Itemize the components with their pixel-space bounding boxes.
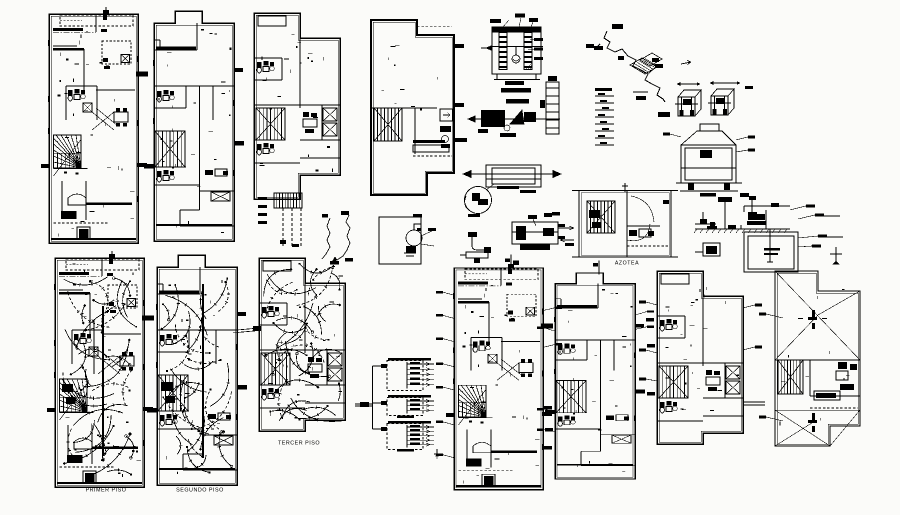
corridor wall — [96, 89, 135, 91]
panel dashed enclosure — [387, 361, 423, 391]
wall — [53, 45, 77, 47]
closet bar — [557, 305, 597, 308]
wall — [490, 430, 492, 468]
roof flag — [109, 254, 115, 258]
wall — [91, 425, 93, 464]
edge tick left — [41, 164, 49, 168]
service row — [816, 393, 836, 398]
wall — [157, 329, 237, 331]
hatched box — [488, 354, 497, 363]
kitchen fixtures — [205, 170, 213, 175]
leader with label bar — [537, 429, 555, 432]
detail: cisterna section — [492, 27, 541, 74]
bathroom fixtures — [160, 334, 177, 346]
leader with label bar — [639, 378, 657, 381]
wall — [703, 397, 743, 399]
drop leader bars — [258, 197, 267, 200]
center spine wall — [202, 330, 204, 454]
hatched box — [726, 366, 740, 379]
inter-plan leader bars — [543, 318, 655, 450]
kitchen fixtures — [208, 414, 216, 419]
dash-dot service line — [59, 276, 102, 278]
leader with label bar — [798, 235, 827, 238]
cistern left arrow — [486, 46, 492, 51]
laundry dashed room — [102, 41, 131, 64]
wall — [95, 16, 97, 32]
dashed utility line — [459, 469, 515, 471]
annotation speckle — [560, 289, 632, 471]
wall — [371, 107, 374, 109]
wall — [555, 307, 598, 309]
winder stairs — [60, 379, 88, 412]
wall — [89, 293, 91, 334]
wall — [254, 139, 285, 141]
wall — [101, 260, 103, 276]
panel bottom bars — [397, 416, 414, 419]
edge tick right — [541, 324, 553, 329]
bottom wall — [51, 238, 136, 240]
hatched box — [89, 347, 98, 356]
wall — [202, 434, 237, 436]
dashed line — [810, 407, 858, 409]
leader with label bar — [436, 454, 454, 458]
bottom wall bar — [557, 464, 633, 466]
mid corridor wall — [657, 362, 743, 364]
vent marks — [508, 269, 512, 274]
closet wall bar — [458, 282, 488, 285]
edge tick right — [136, 72, 148, 77]
dining set — [114, 108, 128, 127]
svg-text:TERCER PISO: TERCER PISO — [278, 441, 320, 447]
closet lines — [466, 430, 468, 460]
detail: isometric registro box — [708, 89, 734, 115]
closet bar — [159, 291, 199, 294]
mid corridor wall — [259, 349, 345, 351]
branch circuits — [407, 400, 434, 402]
roof bath walls — [775, 359, 860, 361]
stair diagonal — [459, 389, 487, 424]
leader with label bar — [635, 310, 654, 315]
wall — [488, 302, 490, 342]
winder stairs — [54, 135, 82, 168]
panel bus — [406, 362, 408, 389]
wall — [555, 412, 587, 414]
floor plan B4 sanitary-electrical primer piso outline — [454, 268, 543, 490]
hatched box — [121, 55, 130, 63]
bathtub — [68, 194, 86, 205]
cistern leaders right — [528, 38, 543, 60]
wall — [199, 267, 201, 294]
center spine wall — [199, 86, 201, 210]
dash-dot service line — [53, 32, 96, 34]
stairs — [155, 131, 185, 167]
spine wall vertical — [304, 283, 306, 353]
dining set — [519, 359, 533, 377]
detail: bajante isometric — [322, 211, 353, 265]
wall — [458, 298, 482, 300]
upper closet — [159, 40, 161, 50]
leader with label bar — [736, 136, 755, 140]
svg-text:PRIMER PISO: PRIMER PISO — [86, 488, 127, 494]
vent marks — [103, 15, 107, 20]
patio dashed boundary — [60, 15, 133, 26]
bathroom fixtures — [660, 401, 677, 413]
feeder from plan — [355, 403, 373, 405]
wall — [154, 49, 197, 51]
outlet and lamp markers — [265, 263, 342, 421]
cistern float — [512, 55, 520, 63]
panel feed stub — [377, 365, 387, 367]
kitchen fixtures — [606, 415, 614, 419]
cistern dimension bars below — [505, 81, 524, 85]
wall — [471, 337, 502, 339]
leader with label bar — [743, 346, 762, 350]
wall below bath — [154, 107, 186, 109]
branch circuits — [407, 426, 434, 428]
hatched box — [526, 307, 535, 315]
kitchen fixtures — [308, 357, 314, 362]
stairs — [587, 201, 615, 233]
stairs — [374, 108, 402, 141]
wall ticks — [154, 60, 234, 176]
pump body — [748, 212, 757, 220]
bathroom fixtures — [160, 414, 177, 426]
floor plan B4 group — [436, 254, 562, 489]
roof drain center upper — [798, 310, 827, 329]
wall — [657, 337, 685, 339]
outlet and lamp markers — [63, 277, 137, 478]
edge tick left — [47, 408, 55, 412]
bottom wall — [456, 485, 541, 487]
wall — [500, 270, 502, 285]
hatched box — [328, 368, 342, 381]
riser mast — [510, 254, 512, 269]
wall — [259, 302, 287, 304]
closet lines — [67, 425, 69, 456]
leader with label bar — [436, 314, 454, 318]
stove box — [85, 473, 95, 482]
dining set — [120, 352, 134, 371]
bathroom fixtures — [257, 143, 274, 155]
wall — [154, 166, 186, 168]
dimension lines above boxes — [677, 83, 700, 85]
edge ticks — [455, 44, 464, 48]
annotation speckle — [461, 285, 540, 483]
hatched box — [214, 436, 233, 445]
feeder spine wall — [202, 284, 204, 458]
stove box — [484, 476, 494, 485]
spine stub — [215, 330, 217, 364]
floor plan B1 electrical primer piso outline — [55, 258, 144, 487]
hall walls — [470, 338, 472, 371]
wall — [60, 412, 94, 414]
floor plan B3 electrical tercer piso outline — [259, 258, 345, 431]
cistern wall rungs — [499, 36, 532, 68]
dash-dot service line — [458, 285, 501, 287]
closet wall bar — [59, 272, 89, 275]
bottom inner line — [581, 465, 635, 467]
detail: equipo de bombeo section — [694, 193, 843, 272]
top-left roof rect — [661, 274, 689, 284]
dashed parapet — [627, 245, 668, 247]
wall — [72, 329, 103, 331]
stairs — [256, 108, 285, 140]
floor plan T1 sanitary primer piso outline — [49, 14, 138, 243]
stove box — [79, 229, 89, 238]
spine wall vertical — [702, 296, 704, 366]
vanity blob — [67, 455, 83, 463]
B6 right double leader — [744, 401, 765, 403]
leader with label bar — [759, 313, 783, 318]
bathroom fixtures — [473, 341, 490, 353]
left wall ticks — [454, 293, 543, 450]
bathtub — [473, 442, 491, 453]
spine wall vertical — [299, 38, 301, 108]
edge tick left — [147, 408, 157, 413]
floor plan T4 sanitary azotea outline — [371, 20, 454, 195]
bottom wall — [57, 482, 142, 484]
closet lines — [61, 181, 63, 212]
annotation speckle — [159, 29, 231, 232]
kitchen counter bar — [92, 447, 138, 449]
leader with label bar — [436, 291, 454, 295]
edge tick right lower — [137, 163, 147, 167]
hatched box — [328, 353, 342, 366]
stair diagonal — [60, 384, 88, 421]
lower walls — [183, 453, 203, 455]
ground symbol — [434, 449, 440, 458]
hatched box — [127, 299, 136, 307]
roof bath fixtures — [838, 362, 847, 369]
floor plan T3 sanitary tercer piso outline — [254, 13, 340, 199]
wall — [66, 85, 97, 87]
leader with label bar — [759, 416, 783, 421]
cistern pit — [744, 232, 798, 272]
wiring arcs — [63, 277, 136, 476]
corridor wall — [102, 333, 141, 335]
stair blobs — [589, 210, 600, 218]
lower walls — [581, 450, 601, 452]
svg-text:AZOTEA: AZOTEA — [615, 261, 639, 267]
leader with label bar — [543, 343, 562, 347]
stairs — [778, 360, 803, 394]
branch circuits — [407, 363, 434, 365]
right feeder leader — [237, 328, 259, 330]
dashed utility line — [60, 466, 116, 468]
leader with label bar — [436, 337, 454, 341]
cistern wall ladder left — [499, 33, 507, 70]
extra ground marks — [707, 226, 717, 229]
bath fixtures — [629, 230, 637, 236]
wall — [555, 339, 635, 341]
left lower glyph — [706, 246, 717, 254]
svg-text:SEGUNDO PISO: SEGUNDO PISO — [176, 488, 224, 494]
cistern corner hatch — [526, 63, 532, 69]
floor plan B7 azotea roof — [775, 271, 860, 446]
motor lines — [740, 225, 742, 229]
outlet and lamp markers — [160, 278, 232, 474]
hall walls — [71, 330, 73, 364]
counter bar — [413, 140, 445, 143]
wall — [157, 428, 202, 430]
panel bus — [406, 399, 408, 414]
right gap marks — [663, 200, 669, 204]
wiring arcs — [264, 264, 342, 422]
spine stub — [613, 340, 615, 370]
wall — [657, 315, 685, 317]
bottom wall bar — [156, 224, 232, 226]
detail: isometric plumbing run — [586, 24, 670, 117]
bottom inner line — [183, 469, 237, 471]
center wall — [626, 191, 628, 258]
detail: isometric registro box — [675, 90, 701, 116]
rooftop fixtures — [440, 126, 451, 132]
leader with label bar — [543, 306, 562, 310]
leader with label bar — [436, 363, 454, 367]
annotation speckle — [267, 276, 343, 416]
edge tick right — [635, 389, 645, 393]
fixture blobs — [109, 302, 114, 306]
hatched box — [211, 192, 230, 201]
annotation speckle — [66, 264, 142, 477]
wall — [196, 23, 198, 50]
closet bar — [156, 47, 196, 50]
leader with label bar — [436, 386, 454, 390]
wall — [259, 384, 290, 386]
leader with label bar — [537, 326, 555, 331]
wall — [254, 57, 282, 59]
edge tick right — [237, 385, 247, 390]
annotation speckle — [382, 46, 438, 111]
hatched box — [726, 381, 740, 394]
hatched box — [323, 108, 337, 121]
fixture blobs — [103, 58, 108, 62]
roof drain center lower — [808, 413, 817, 432]
upper closet — [560, 299, 562, 308]
door arc — [631, 196, 654, 222]
lower-right wall — [703, 415, 743, 417]
wall ticks — [157, 304, 237, 420]
left wall ticks — [55, 284, 144, 446]
leader with label bar — [639, 301, 657, 305]
hose bib far right — [830, 247, 842, 261]
wall — [254, 79, 282, 81]
top dashed line — [417, 25, 452, 27]
panel bus — [406, 425, 408, 448]
feeder riser — [355, 366, 381, 429]
vent pipe mark — [624, 183, 626, 192]
wiring arcs — [162, 278, 232, 472]
edge tick right — [142, 316, 154, 321]
lower walls — [180, 209, 200, 211]
edge tick left — [446, 413, 454, 417]
tinaco box with arrow — [440, 109, 453, 121]
kitchen fixtures — [303, 112, 309, 117]
float leaders — [421, 231, 432, 236]
wall — [627, 225, 660, 227]
closet wall bar — [53, 28, 83, 31]
wall below bath — [157, 351, 189, 353]
leader with label bar — [436, 421, 454, 425]
laundry dashed room — [507, 294, 536, 316]
lower-right wall — [305, 402, 345, 404]
floor plan B2 electrical segundo piso outline — [157, 255, 237, 485]
leader with label bar — [736, 149, 755, 152]
hatched box — [323, 123, 337, 136]
bottom wall bar — [159, 468, 235, 470]
bottom-left room lines — [259, 407, 305, 409]
wall — [85, 181, 87, 220]
bathroom fixtures — [262, 388, 279, 400]
door swing diagonals — [497, 363, 519, 380]
wall below bath — [555, 359, 587, 361]
stair diagonal — [54, 140, 82, 177]
door swing diagonals — [92, 112, 114, 130]
wall bar — [59, 292, 90, 295]
panel top bar — [388, 358, 431, 361]
annotation speckle — [780, 289, 850, 425]
wall ticks — [555, 317, 635, 421]
hall walls — [65, 86, 67, 120]
detail: pipe fitting — [460, 232, 491, 263]
wall — [157, 410, 189, 412]
floor plan B5 segundo piso services outline — [555, 273, 635, 479]
wall — [83, 49, 85, 90]
cistern top labels — [490, 14, 538, 28]
bathtub — [74, 438, 92, 449]
annotation speckle — [56, 32, 135, 237]
vent marks — [109, 259, 113, 264]
kitchen fixtures — [706, 370, 712, 375]
fixture blobs — [508, 311, 513, 315]
cistern wall ladder right — [524, 33, 532, 70]
leader with label bar — [537, 408, 555, 412]
patio dashed boundary — [66, 259, 139, 270]
flow arrow symbol — [681, 61, 691, 65]
upper closet — [162, 284, 164, 294]
wall — [157, 293, 200, 295]
legend: symbol list — [595, 88, 614, 145]
dashed ledge — [413, 155, 452, 157]
wall — [259, 324, 287, 326]
vanity blob — [466, 459, 482, 467]
laundry dashed room — [108, 285, 137, 308]
roof flag — [508, 264, 514, 268]
kitchen counter bar — [491, 451, 537, 453]
wall — [657, 397, 688, 399]
bathroom fixtures — [262, 306, 279, 318]
annotation speckle — [166, 280, 237, 474]
stairs — [659, 366, 688, 398]
stairs — [261, 353, 290, 385]
dashed utility line — [54, 222, 110, 224]
left small fixtures — [700, 219, 707, 224]
vanity blob — [61, 211, 77, 219]
edge tick right — [234, 141, 244, 146]
leader with label bar — [639, 349, 657, 353]
roof slope X upper — [775, 271, 860, 360]
wall — [321, 105, 323, 140]
wall — [724, 363, 726, 398]
bathroom fixtures — [68, 89, 85, 101]
top-left roof rect — [263, 261, 291, 271]
stairs — [556, 380, 586, 412]
suction pipe — [769, 229, 771, 262]
stair dark blobs — [62, 384, 73, 392]
cistern water line — [490, 46, 543, 48]
tail bottom marks — [280, 240, 286, 244]
leader with label bar — [798, 214, 824, 219]
